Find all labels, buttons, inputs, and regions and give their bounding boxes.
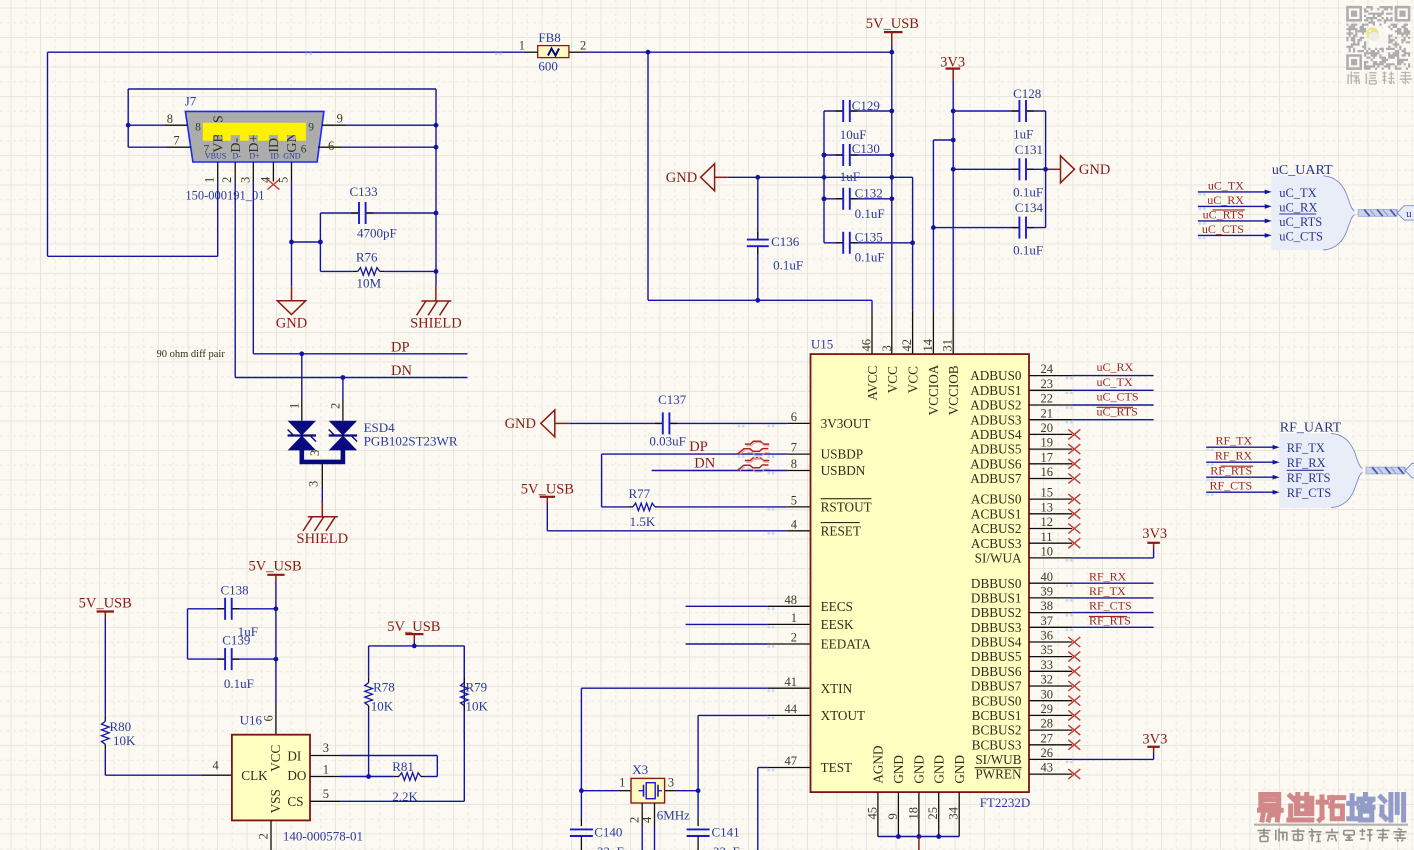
svg-text:USBDP: USBDP — [821, 447, 864, 462]
svg-text:11: 11 — [1041, 530, 1053, 544]
svg-text:ACBUS3: ACBUS3 — [971, 536, 1022, 551]
svg-text:DBBUS7: DBBUS7 — [971, 679, 1022, 694]
svg-text:6: 6 — [301, 143, 307, 155]
svg-text:AGND: AGND — [871, 745, 886, 783]
svg-text:13: 13 — [1041, 500, 1054, 514]
svg-text:SHIELD: SHIELD — [410, 316, 462, 332]
svg-text:uC_RX: uC_RX — [1207, 193, 1244, 207]
svg-text:23: 23 — [1041, 377, 1054, 391]
svg-text:1: 1 — [619, 775, 625, 789]
svg-text:0.1uF: 0.1uF — [1013, 243, 1043, 258]
svg-text:0.1uF: 0.1uF — [224, 676, 254, 691]
svg-text:26: 26 — [1041, 746, 1054, 760]
svg-text:R80: R80 — [110, 719, 132, 734]
svg-text:90 ohm diff pair: 90 ohm diff pair — [157, 349, 226, 360]
svg-text:9: 9 — [886, 813, 900, 819]
svg-text:ADBUS6: ADBUS6 — [970, 456, 1022, 471]
svg-text:uC_CTS: uC_CTS — [1202, 222, 1244, 236]
svg-text:RF_RX: RF_RX — [1089, 569, 1127, 583]
svg-text:RF_TX: RF_TX — [1287, 441, 1325, 455]
svg-text:U15: U15 — [811, 337, 833, 352]
svg-text:CLK: CLK — [241, 768, 268, 783]
svg-text:DN: DN — [694, 456, 715, 472]
svg-text:4: 4 — [212, 759, 219, 773]
svg-text:FB8: FB8 — [538, 30, 560, 45]
svg-text:C136: C136 — [771, 234, 800, 249]
svg-text:SHIELD: SHIELD — [297, 531, 349, 547]
svg-text:6MHz: 6MHz — [657, 808, 690, 823]
svg-text:22pF: 22pF — [597, 844, 624, 850]
svg-text:4: 4 — [791, 517, 798, 531]
svg-text:3V3OUT: 3V3OUT — [821, 416, 871, 431]
svg-text:PWREN: PWREN — [975, 767, 1022, 782]
svg-text:J7: J7 — [185, 93, 197, 108]
svg-text:R79: R79 — [466, 680, 488, 695]
svg-text:DBBUS1: DBBUS1 — [971, 591, 1022, 606]
svg-text:1: 1 — [288, 403, 302, 409]
svg-text:3: 3 — [668, 775, 674, 789]
svg-text:27: 27 — [1041, 731, 1054, 745]
svg-text:USBDN: USBDN — [821, 463, 866, 478]
svg-text:ADBUS3: ADBUS3 — [970, 412, 1022, 427]
svg-text:19: 19 — [1041, 436, 1054, 450]
svg-text:RSTOUT: RSTOUT — [821, 500, 872, 515]
svg-text:RF_RX: RF_RX — [1287, 456, 1326, 470]
svg-text:DO: DO — [287, 768, 306, 783]
svg-text:C128: C128 — [1013, 86, 1041, 101]
svg-text:22pF: 22pF — [713, 844, 740, 850]
svg-text:DN: DN — [391, 363, 412, 379]
svg-text:29: 29 — [1041, 702, 1054, 716]
svg-text:R81: R81 — [392, 759, 414, 774]
svg-text:6: 6 — [791, 410, 797, 424]
svg-text:ADBUS7: ADBUS7 — [970, 471, 1022, 486]
svg-text:RF_RTS: RF_RTS — [1089, 613, 1131, 627]
svg-text:DI: DI — [287, 748, 301, 763]
svg-text:ACBUS0: ACBUS0 — [971, 492, 1022, 507]
svg-text:10uF: 10uF — [840, 127, 867, 142]
svg-text:1uF: 1uF — [1013, 127, 1033, 142]
svg-text:VCCIOB: VCCIOB — [946, 365, 961, 415]
svg-text:0.1uF: 0.1uF — [773, 257, 803, 272]
svg-text:uC_RTS: uC_RTS — [1097, 404, 1138, 418]
svg-text:3: 3 — [308, 450, 322, 456]
svg-text:DP: DP — [689, 439, 708, 455]
svg-text:uC_TX: uC_TX — [1097, 375, 1133, 389]
svg-text:42: 42 — [900, 339, 914, 352]
svg-text:37: 37 — [1041, 614, 1054, 628]
svg-text:8: 8 — [195, 122, 201, 134]
svg-text:PGB102ST23WR: PGB102ST23WR — [364, 433, 458, 448]
svg-text:47: 47 — [785, 754, 798, 768]
svg-text:0.1uF: 0.1uF — [1013, 185, 1043, 200]
svg-text:GND: GND — [505, 416, 536, 432]
svg-text:ADBUS0: ADBUS0 — [970, 368, 1022, 383]
svg-text:RESET: RESET — [821, 523, 861, 538]
svg-text:18: 18 — [906, 807, 920, 820]
svg-text:7: 7 — [173, 134, 179, 148]
svg-text:C140: C140 — [594, 825, 622, 840]
svg-text:39: 39 — [1041, 585, 1054, 599]
svg-text:ID: ID — [270, 152, 279, 161]
svg-text:DP: DP — [391, 340, 410, 356]
svg-text:SI/WUA: SI/WUA — [975, 551, 1022, 566]
svg-text:6: 6 — [328, 139, 334, 153]
svg-text:3: 3 — [323, 741, 329, 755]
svg-text:C139: C139 — [222, 632, 250, 647]
svg-text:48: 48 — [785, 593, 798, 607]
svg-text:ADBUS4: ADBUS4 — [970, 427, 1022, 442]
svg-text:RF_TX: RF_TX — [1216, 434, 1253, 448]
svg-text:uC_RX: uC_RX — [1097, 360, 1134, 374]
svg-text:RF_RX: RF_RX — [1215, 449, 1253, 463]
svg-text:BCBUS3: BCBUS3 — [972, 737, 1022, 752]
svg-text:C131: C131 — [1015, 142, 1043, 157]
svg-text:DBBUS4: DBBUS4 — [971, 635, 1022, 650]
svg-text:600: 600 — [538, 59, 558, 74]
svg-text:C138: C138 — [221, 583, 249, 598]
svg-text:TEST: TEST — [821, 760, 853, 775]
svg-text:12: 12 — [1041, 515, 1054, 529]
svg-text:2: 2 — [791, 631, 797, 645]
svg-text:GND: GND — [891, 755, 906, 784]
svg-text:D+: D+ — [249, 152, 260, 161]
svg-text:u: u — [1406, 208, 1412, 220]
svg-text:140-000578-01: 140-000578-01 — [283, 829, 363, 844]
svg-text:GND: GND — [276, 315, 307, 331]
svg-text:2: 2 — [220, 177, 234, 183]
svg-text:GND: GND — [666, 170, 697, 186]
svg-text:VSS: VSS — [268, 789, 283, 813]
svg-text:25: 25 — [926, 807, 940, 820]
svg-text:uC_RX: uC_RX — [1279, 200, 1317, 214]
svg-text:C141: C141 — [712, 825, 740, 840]
svg-text:D-: D- — [232, 152, 241, 161]
svg-text:5V_USB: 5V_USB — [866, 16, 919, 32]
svg-text:1: 1 — [323, 763, 329, 777]
svg-text:8: 8 — [791, 457, 797, 471]
svg-text:10: 10 — [1041, 545, 1054, 559]
svg-text:X3: X3 — [632, 762, 648, 777]
svg-text:ADBUS1: ADBUS1 — [970, 383, 1021, 398]
svg-text:0.1uF: 0.1uF — [855, 206, 885, 221]
svg-text:2: 2 — [580, 39, 586, 53]
svg-text:5: 5 — [791, 494, 797, 508]
svg-text:40: 40 — [1041, 570, 1054, 584]
svg-text:RF_CTS: RF_CTS — [1210, 479, 1253, 493]
svg-text:DBBUS3: DBBUS3 — [971, 620, 1022, 635]
svg-text:2: 2 — [329, 403, 343, 409]
svg-text:SI/WUB: SI/WUB — [975, 752, 1021, 767]
svg-text:1: 1 — [519, 39, 525, 53]
svg-text:3V3: 3V3 — [1142, 732, 1167, 748]
svg-text:14: 14 — [921, 338, 935, 351]
svg-text:5V_USB: 5V_USB — [387, 619, 440, 635]
svg-text:C130: C130 — [852, 141, 880, 156]
svg-text:uC_CTS: uC_CTS — [1279, 229, 1323, 243]
svg-text:30: 30 — [1041, 687, 1054, 701]
svg-text:EECS: EECS — [821, 599, 853, 614]
svg-text:16: 16 — [1041, 465, 1054, 479]
svg-text:7: 7 — [791, 441, 797, 455]
svg-text:21: 21 — [1041, 406, 1054, 420]
svg-text:5V_USB: 5V_USB — [79, 596, 132, 612]
svg-text:4700pF: 4700pF — [357, 226, 397, 241]
svg-text:5: 5 — [323, 787, 329, 801]
svg-text:0.1uF: 0.1uF — [855, 250, 885, 265]
svg-text:BCBUS1: BCBUS1 — [972, 708, 1022, 723]
svg-text:24: 24 — [1041, 362, 1054, 376]
svg-text:1: 1 — [791, 611, 797, 625]
svg-text:VCC: VCC — [905, 366, 920, 393]
svg-text:15: 15 — [1041, 486, 1054, 500]
svg-text:C134: C134 — [1015, 200, 1044, 215]
svg-text:VCCIOA: VCCIOA — [926, 364, 941, 415]
svg-text:C135: C135 — [855, 229, 883, 244]
svg-text:RF_UART: RF_UART — [1280, 421, 1342, 436]
svg-text:10K: 10K — [466, 699, 489, 714]
svg-text:ACBUS2: ACBUS2 — [971, 521, 1022, 536]
svg-text:DBBUS6: DBBUS6 — [971, 664, 1022, 679]
svg-text:0.03uF: 0.03uF — [649, 434, 685, 449]
svg-text:10K: 10K — [371, 699, 394, 714]
svg-text:43: 43 — [1041, 761, 1054, 775]
svg-text:R77: R77 — [629, 486, 651, 501]
svg-text:9: 9 — [337, 112, 343, 126]
svg-text:DBBUS5: DBBUS5 — [971, 649, 1022, 664]
svg-text:10M: 10M — [357, 276, 382, 291]
svg-text:33: 33 — [1041, 658, 1054, 672]
svg-text:1: 1 — [203, 177, 217, 183]
svg-text:FT2232D: FT2232D — [980, 795, 1031, 810]
svg-text:28: 28 — [1041, 717, 1054, 731]
svg-text:BCBUS2: BCBUS2 — [972, 723, 1022, 738]
svg-text:RF_CTS: RF_CTS — [1287, 486, 1332, 500]
svg-text:4: 4 — [640, 816, 654, 823]
svg-text:VCC: VCC — [268, 744, 283, 771]
svg-text:17: 17 — [1041, 450, 1054, 464]
svg-text:EEDATA: EEDATA — [821, 637, 872, 652]
svg-text:10K: 10K — [113, 733, 136, 748]
svg-text:GND: GND — [912, 755, 927, 784]
svg-text:uC_TX: uC_TX — [1279, 186, 1317, 200]
svg-text:VCC: VCC — [885, 366, 900, 393]
svg-text:34: 34 — [947, 806, 961, 819]
svg-text:GND: GND — [952, 755, 967, 784]
svg-text:DBBUS2: DBBUS2 — [971, 605, 1022, 620]
svg-text:XTIN: XTIN — [821, 681, 853, 696]
svg-text:3: 3 — [880, 345, 894, 351]
svg-text:9: 9 — [308, 122, 314, 134]
svg-text:22: 22 — [1041, 392, 1054, 406]
svg-text:DBBUS0: DBBUS0 — [971, 576, 1022, 591]
svg-text:R78: R78 — [373, 680, 395, 695]
svg-text:AVCC: AVCC — [865, 365, 880, 400]
svg-text:32: 32 — [1041, 673, 1054, 687]
svg-text:uC_UART: uC_UART — [1272, 163, 1333, 178]
svg-text:20: 20 — [1041, 421, 1054, 435]
svg-text:38: 38 — [1041, 599, 1054, 613]
svg-text:ADBUS5: ADBUS5 — [970, 442, 1022, 457]
svg-text:RF_RTS: RF_RTS — [1287, 471, 1331, 485]
svg-text:3: 3 — [238, 177, 252, 183]
svg-text:45: 45 — [865, 807, 879, 820]
svg-text:GND: GND — [1079, 162, 1110, 178]
svg-text:R76: R76 — [356, 250, 378, 265]
svg-text:41: 41 — [785, 675, 798, 689]
svg-text:3V3: 3V3 — [1142, 526, 1167, 542]
svg-text:8: 8 — [167, 112, 173, 126]
svg-text:C132: C132 — [855, 186, 883, 201]
svg-text:6: 6 — [262, 715, 276, 721]
svg-text:31: 31 — [941, 339, 955, 352]
svg-text:44: 44 — [785, 702, 798, 716]
svg-text:uC_CTS: uC_CTS — [1097, 390, 1139, 404]
svg-text:XTOUT: XTOUT — [821, 708, 865, 723]
svg-text:GND: GND — [932, 755, 947, 784]
svg-text:1.5K: 1.5K — [630, 514, 656, 529]
svg-text:C129: C129 — [852, 98, 880, 113]
svg-text:5V_USB: 5V_USB — [249, 559, 302, 575]
svg-text:uC_RTS: uC_RTS — [1279, 215, 1322, 229]
svg-text:46: 46 — [860, 339, 874, 352]
svg-text:RF_TX: RF_TX — [1089, 584, 1126, 598]
svg-text:RF_CTS: RF_CTS — [1089, 599, 1132, 613]
svg-text:ACBUS1: ACBUS1 — [971, 506, 1022, 521]
svg-text:CS: CS — [287, 794, 303, 809]
svg-text:U16: U16 — [240, 713, 263, 728]
svg-text:EESK: EESK — [821, 617, 854, 632]
svg-text:2: 2 — [257, 833, 271, 839]
svg-text:36: 36 — [1041, 629, 1054, 643]
svg-text:VBUS: VBUS — [205, 152, 226, 161]
svg-text:3: 3 — [307, 481, 321, 487]
svg-text:C133: C133 — [350, 184, 378, 199]
svg-text:35: 35 — [1041, 643, 1054, 657]
svg-text:GND: GND — [283, 152, 301, 161]
svg-text:C137: C137 — [658, 392, 687, 407]
svg-text:uC_TX: uC_TX — [1208, 178, 1244, 192]
svg-text:ADBUS2: ADBUS2 — [970, 398, 1021, 413]
svg-text:5V_USB: 5V_USB — [521, 481, 574, 497]
svg-text:1uF: 1uF — [840, 169, 860, 184]
svg-text:BCBUS0: BCBUS0 — [972, 693, 1022, 708]
